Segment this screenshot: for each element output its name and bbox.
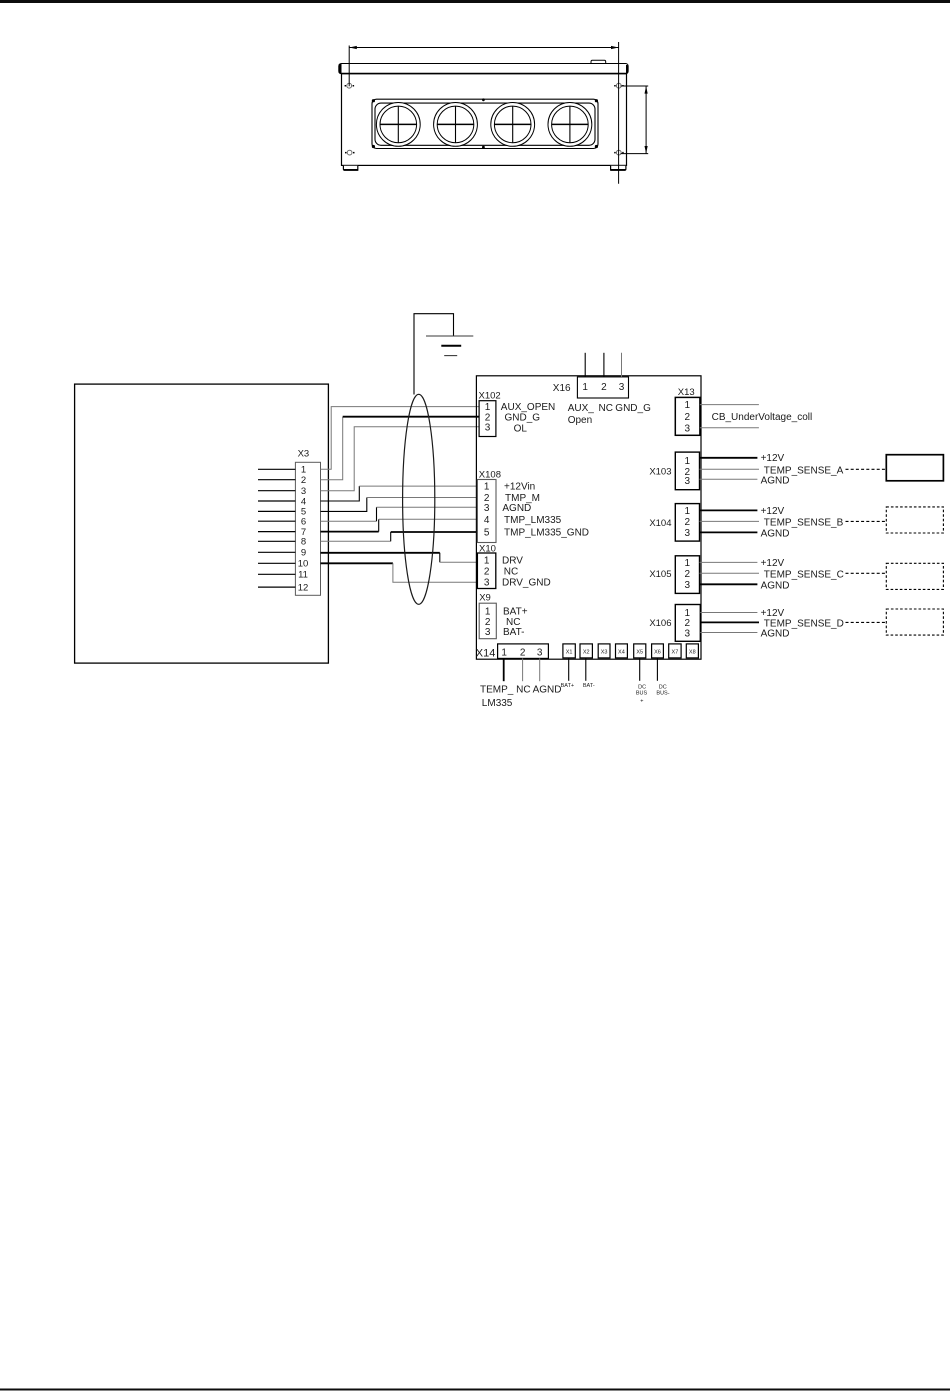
- wire X104.2 TEMP_SENSE_B: [700, 517, 844, 528]
- connector X1: [563, 644, 575, 658]
- wire X103.3 AGND: [700, 475, 790, 486]
- svg-text:X16: X16: [553, 383, 571, 394]
- dotted link C: [846, 572, 887, 574]
- svg-text:10: 10: [298, 559, 309, 570]
- svg-text:X8: X8: [689, 649, 696, 655]
- connector X106: [649, 605, 700, 642]
- svg-text:X106: X106: [649, 618, 671, 629]
- svg-text:6: 6: [301, 517, 306, 528]
- fan plate inner frame: [375, 103, 595, 145]
- svg-text:X1: X1: [566, 649, 573, 655]
- earth ground symbol: [426, 336, 473, 356]
- svg-text:1: 1: [582, 382, 588, 393]
- svg-text:X4: X4: [618, 649, 625, 655]
- fan tray body: [342, 74, 627, 166]
- svg-text:+12V: +12V: [761, 506, 785, 517]
- connector X104: [649, 504, 699, 541]
- connector X16: [553, 377, 629, 398]
- svg-text:TMP_LM335: TMP_LM335: [504, 515, 562, 526]
- wire X105.3 AGND: [700, 580, 790, 591]
- svg-text:X104: X104: [649, 518, 671, 529]
- svg-text:12: 12: [298, 582, 309, 593]
- svg-text:X13: X13: [678, 387, 695, 398]
- X16 pin 1 stub: [584, 353, 586, 377]
- svg-text:2: 2: [601, 382, 607, 393]
- shield to earth wire: [414, 314, 454, 395]
- connector X8: [686, 644, 698, 658]
- svg-text:AGND: AGND: [533, 684, 562, 695]
- connector X5: [634, 644, 646, 658]
- svg-text:X3: X3: [298, 449, 310, 460]
- svg-text:AGND: AGND: [502, 503, 531, 514]
- svg-text:3: 3: [485, 423, 491, 434]
- fan 2: [434, 103, 478, 147]
- svg-text:DC: DC: [638, 684, 646, 690]
- svg-text:8: 8: [301, 537, 306, 548]
- temp sensor C box (dashed): [886, 563, 943, 589]
- fan 1: [376, 103, 420, 147]
- wire X106.1 +12V: [700, 608, 784, 619]
- wire X3.10 to X10.3: [321, 563, 478, 582]
- wire X3.3 to X102.3: [321, 427, 480, 491]
- svg-text:3: 3: [685, 528, 691, 539]
- svg-text:4: 4: [301, 496, 306, 507]
- X14 pin 3 wire: [539, 658, 541, 681]
- X14 pin 2 wire: [522, 658, 524, 681]
- svg-text:BAT-: BAT-: [503, 627, 524, 638]
- svg-text:BAT-: BAT-: [583, 683, 595, 689]
- wire X13.1: [700, 404, 759, 406]
- svg-text:LM335: LM335: [482, 698, 513, 709]
- svg-text:DRV: DRV: [502, 555, 523, 566]
- svg-text:5: 5: [484, 528, 490, 539]
- wire X104.1 +12V: [700, 506, 785, 517]
- mounting hole bottom-right: [614, 150, 624, 155]
- dimension line (right height): [621, 86, 649, 154]
- right foot: [611, 166, 626, 170]
- page bottom border line: [0, 1389, 950, 1391]
- svg-text:X5: X5: [636, 649, 643, 655]
- svg-text:NC: NC: [504, 566, 518, 577]
- mounting hole top-right: [614, 83, 624, 88]
- svg-text:X3: X3: [601, 649, 608, 655]
- wire X3.1 to X102.1: [321, 407, 480, 470]
- svg-text:BUS-: BUS-: [656, 691, 669, 697]
- X14 pin 1 wire: [503, 658, 505, 681]
- svg-text:X2: X2: [583, 649, 590, 655]
- svg-text:OL: OL: [514, 423, 528, 434]
- connector X4: [616, 644, 628, 658]
- wire X103.2 TEMP_SENSE_A: [700, 465, 844, 476]
- svg-text:X103: X103: [649, 467, 671, 478]
- svg-text:3: 3: [484, 503, 490, 514]
- svg-text:1: 1: [501, 647, 507, 658]
- connector X10: [477, 543, 550, 588]
- svg-text:1: 1: [685, 558, 691, 569]
- X3 pin stubs (inside enclosure): [258, 469, 295, 587]
- cable shield ellipse: [403, 394, 435, 604]
- wire X3.9 to X10.1: [321, 553, 478, 563]
- svg-text:X9: X9: [479, 593, 491, 604]
- svg-text:TMP_LM335_GND: TMP_LM335_GND: [504, 528, 589, 539]
- wire X13.3: [700, 427, 759, 429]
- wire X3.5 to X108.2: [321, 498, 478, 512]
- connector X14: [476, 644, 549, 659]
- dotted link D: [846, 621, 887, 623]
- fan 4: [548, 103, 592, 147]
- page top border bar: [0, 0, 950, 3]
- svg-text:2: 2: [685, 569, 691, 580]
- svg-text:3: 3: [537, 647, 543, 658]
- enclosure box (fan unit): [75, 384, 329, 663]
- svg-text:+12V: +12V: [761, 608, 785, 619]
- svg-text:GND_G: GND_G: [505, 413, 541, 424]
- wire X103.1 +12V: [700, 453, 785, 464]
- svg-text:X105: X105: [649, 569, 671, 580]
- wire X106.3 AGND: [700, 629, 789, 640]
- temp sensor D box (dashed): [886, 609, 943, 635]
- svg-text:TEMP_SENSE_B: TEMP_SENSE_B: [764, 517, 844, 528]
- svg-text:DC: DC: [659, 684, 667, 690]
- svg-text:1: 1: [685, 506, 691, 517]
- svg-text:3: 3: [619, 382, 625, 393]
- X6 label DC BUS-: [656, 684, 669, 696]
- X1 wire: [568, 658, 570, 681]
- control board outline: [476, 376, 701, 659]
- connector X6: [652, 644, 664, 658]
- svg-text:BAT+: BAT+: [503, 607, 528, 618]
- X5 wire: [639, 658, 641, 681]
- svg-text:BUS: BUS: [636, 691, 648, 697]
- svg-text:9: 9: [301, 548, 306, 559]
- svg-text:X102: X102: [479, 391, 501, 402]
- connector X105: [649, 556, 699, 594]
- dotted link A: [846, 468, 887, 470]
- svg-text:+12Vin: +12Vin: [504, 482, 535, 493]
- mounting hole top-left: [345, 83, 355, 88]
- wire X3.8 to X108.5: [321, 532, 478, 541]
- svg-text:3: 3: [485, 627, 491, 638]
- svg-text:NC: NC: [599, 403, 613, 414]
- X14 pin labels: [480, 684, 562, 709]
- connector X2: [580, 644, 592, 658]
- svg-text:1: 1: [685, 400, 691, 411]
- svg-text:AGND: AGND: [761, 580, 790, 591]
- svg-text:X6: X6: [654, 649, 661, 655]
- X2 wire: [585, 658, 587, 681]
- svg-text:2: 2: [484, 566, 490, 577]
- svg-text:TEMP_SENSE_C: TEMP_SENSE_C: [764, 569, 844, 580]
- svg-text:NC: NC: [516, 684, 530, 695]
- wire X3.4 to X108.1: [321, 486, 478, 501]
- svg-text:+: +: [640, 698, 643, 704]
- svg-text:CB_UnderVoltage_coll: CB_UnderVoltage_coll: [712, 412, 813, 423]
- svg-text:2: 2: [301, 475, 306, 486]
- lid tab: [591, 60, 606, 63]
- svg-text:DRV_GND: DRV_GND: [502, 577, 551, 588]
- svg-text:+12V: +12V: [761, 453, 785, 464]
- wire X105.2 TEMP_SENSE_C: [700, 569, 844, 580]
- svg-text:X108: X108: [479, 469, 501, 480]
- wire X3.6 to X108.3: [321, 507, 478, 521]
- svg-text:+12V: +12V: [761, 558, 785, 569]
- svg-text:4: 4: [484, 515, 490, 526]
- svg-text:X14: X14: [476, 647, 496, 659]
- connector X7: [669, 644, 681, 658]
- svg-text:3: 3: [685, 628, 691, 639]
- svg-text:2: 2: [685, 517, 691, 528]
- svg-text:Open: Open: [568, 415, 592, 426]
- svg-text:AGND: AGND: [761, 629, 790, 640]
- wire X104.3 AGND: [700, 528, 790, 539]
- mounting hole bottom-left: [345, 150, 355, 155]
- svg-text:GND_G: GND_G: [615, 403, 651, 414]
- connector X108: [477, 469, 589, 542]
- svg-text:AUX_: AUX_: [568, 403, 595, 414]
- left foot: [343, 166, 357, 170]
- fan 3: [491, 103, 535, 147]
- X5 label DC BUS +: [636, 684, 648, 704]
- dimension line (overall width): [349, 42, 618, 184]
- svg-text:3: 3: [685, 424, 691, 435]
- svg-text:2: 2: [520, 647, 526, 658]
- connector X9: [479, 593, 528, 639]
- connector X3: [295, 449, 320, 596]
- wire X106.2 TEMP_SENSE_D: [700, 618, 844, 629]
- X16 pin labels: [568, 403, 651, 426]
- temp sensor A box: [886, 455, 943, 481]
- wire X105.1 +12V: [700, 558, 785, 569]
- svg-text:AGND: AGND: [761, 528, 790, 539]
- svg-text:2: 2: [685, 412, 691, 423]
- svg-text:1: 1: [301, 465, 306, 476]
- temp sensor B box (dashed): [886, 507, 943, 533]
- svg-text:1: 1: [685, 456, 691, 467]
- connector X3 (board): [598, 644, 610, 658]
- svg-text:11: 11: [298, 570, 308, 581]
- svg-text:3: 3: [484, 577, 490, 588]
- connector X102: [479, 391, 556, 437]
- svg-text:1: 1: [484, 482, 490, 493]
- svg-text:1: 1: [484, 555, 490, 566]
- wire X3.2 to X102.2: [321, 417, 480, 480]
- svg-text:AUX_OPEN: AUX_OPEN: [501, 402, 555, 413]
- X16 pin 3 stub: [621, 353, 623, 377]
- dotted link B: [846, 520, 887, 522]
- svg-text:3: 3: [685, 580, 691, 591]
- X6 wire: [656, 658, 658, 681]
- svg-text:3: 3: [685, 476, 691, 487]
- svg-text:X7: X7: [672, 649, 679, 655]
- X16 pin 2 stub: [603, 353, 605, 377]
- fan tray lid: [338, 60, 628, 73]
- fan plate outer frame: [372, 99, 598, 148]
- svg-text:BAT+: BAT+: [561, 683, 575, 689]
- plate screws: [372, 98, 598, 148]
- connector X103: [649, 452, 699, 490]
- svg-text:1: 1: [485, 607, 491, 618]
- wire X3.7 to X108.4: [321, 519, 478, 531]
- connector X13: [675, 387, 700, 435]
- svg-text:TEMP_: TEMP_: [480, 684, 514, 695]
- svg-text:AGND: AGND: [761, 475, 790, 486]
